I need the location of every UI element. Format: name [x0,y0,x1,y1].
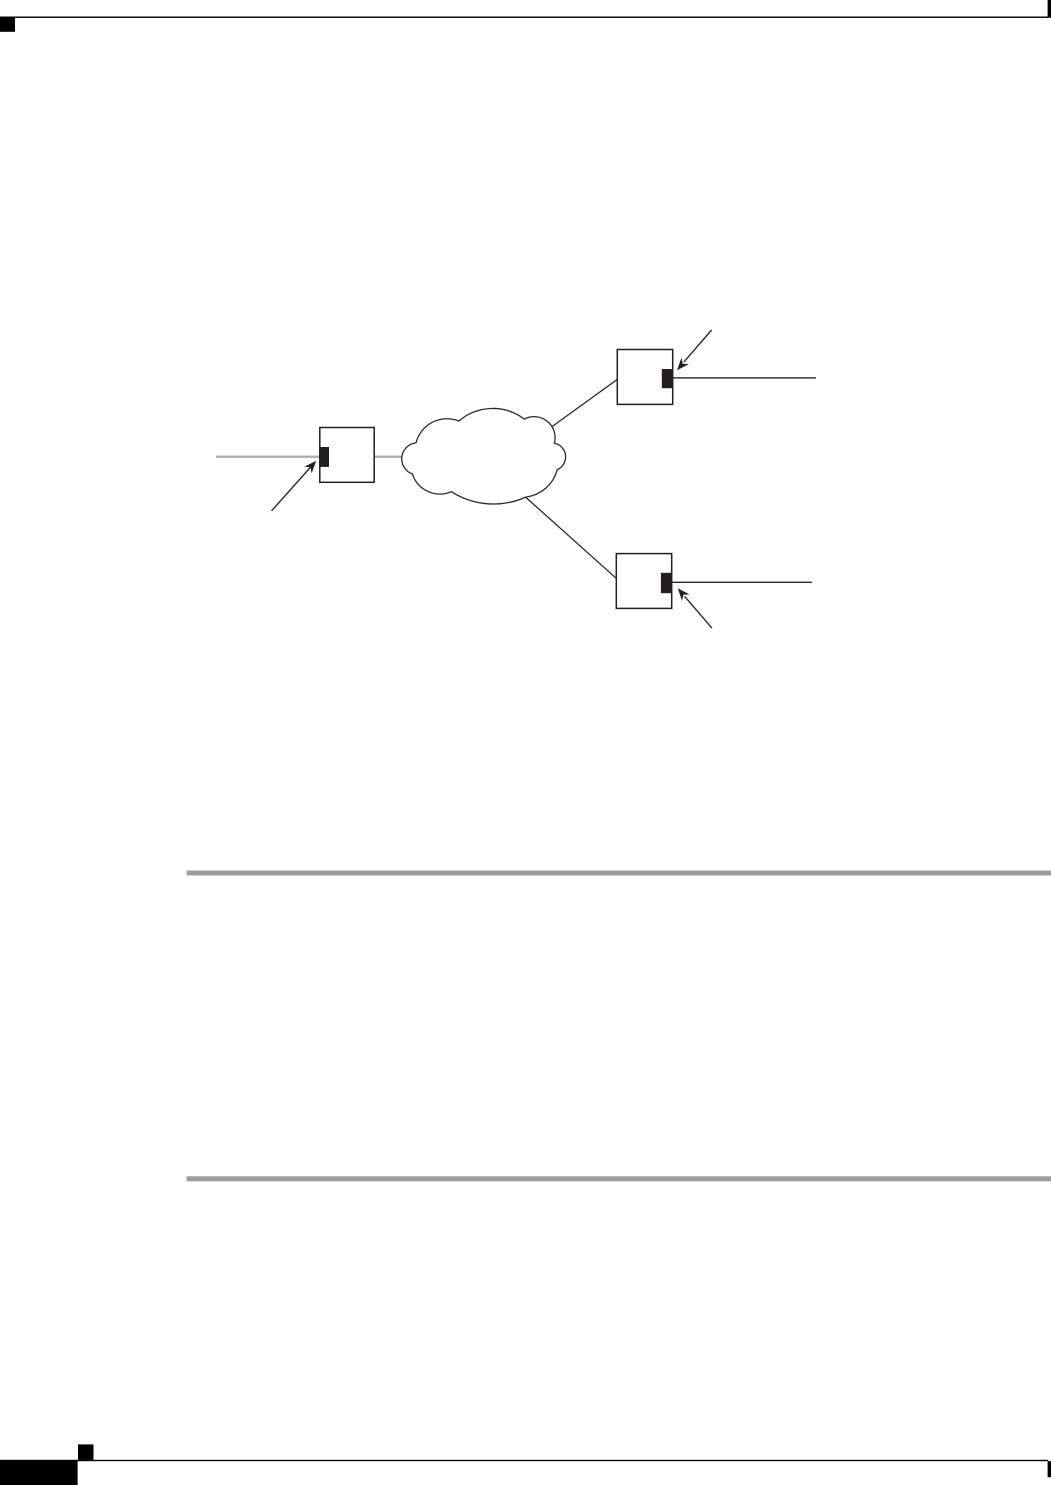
bottom-right router port (black) [661,573,672,593]
top-right router box [617,350,672,405]
header left black tab [0,17,15,32]
footer small black tab [78,1444,94,1460]
footer rule [0,1460,1048,1461]
wire: cloud to top-right router (diagonal) [552,379,617,426]
wire: serial line into left router (gray, from page left) [216,456,320,458]
arrow to bottom-right router port [674,585,712,628]
header rule [0,17,1048,18]
arrow to left router port [272,458,320,511]
top-right router port (black) [662,369,673,388]
wire: top-right router to host (black) [673,377,816,378]
left router port (black) [319,447,329,467]
header right bleed tab [1048,0,1051,18]
mid-page gray rule 2 [187,1176,1051,1181]
footer page-number block (black) [0,1460,78,1485]
wire: bottom-right router to host (black) [672,582,812,583]
bottom-right router box [616,554,671,609]
left router box [320,428,374,483]
mid-page gray rule 1 [187,871,1051,876]
footer right bleed tab [1048,1461,1051,1477]
wire: left router to cloud (gray) [374,456,401,458]
wire: cloud to bottom-right router (diagonal) [526,497,617,578]
cloud: WAN network [402,408,566,504]
arrow to top-right router port [673,330,711,373]
